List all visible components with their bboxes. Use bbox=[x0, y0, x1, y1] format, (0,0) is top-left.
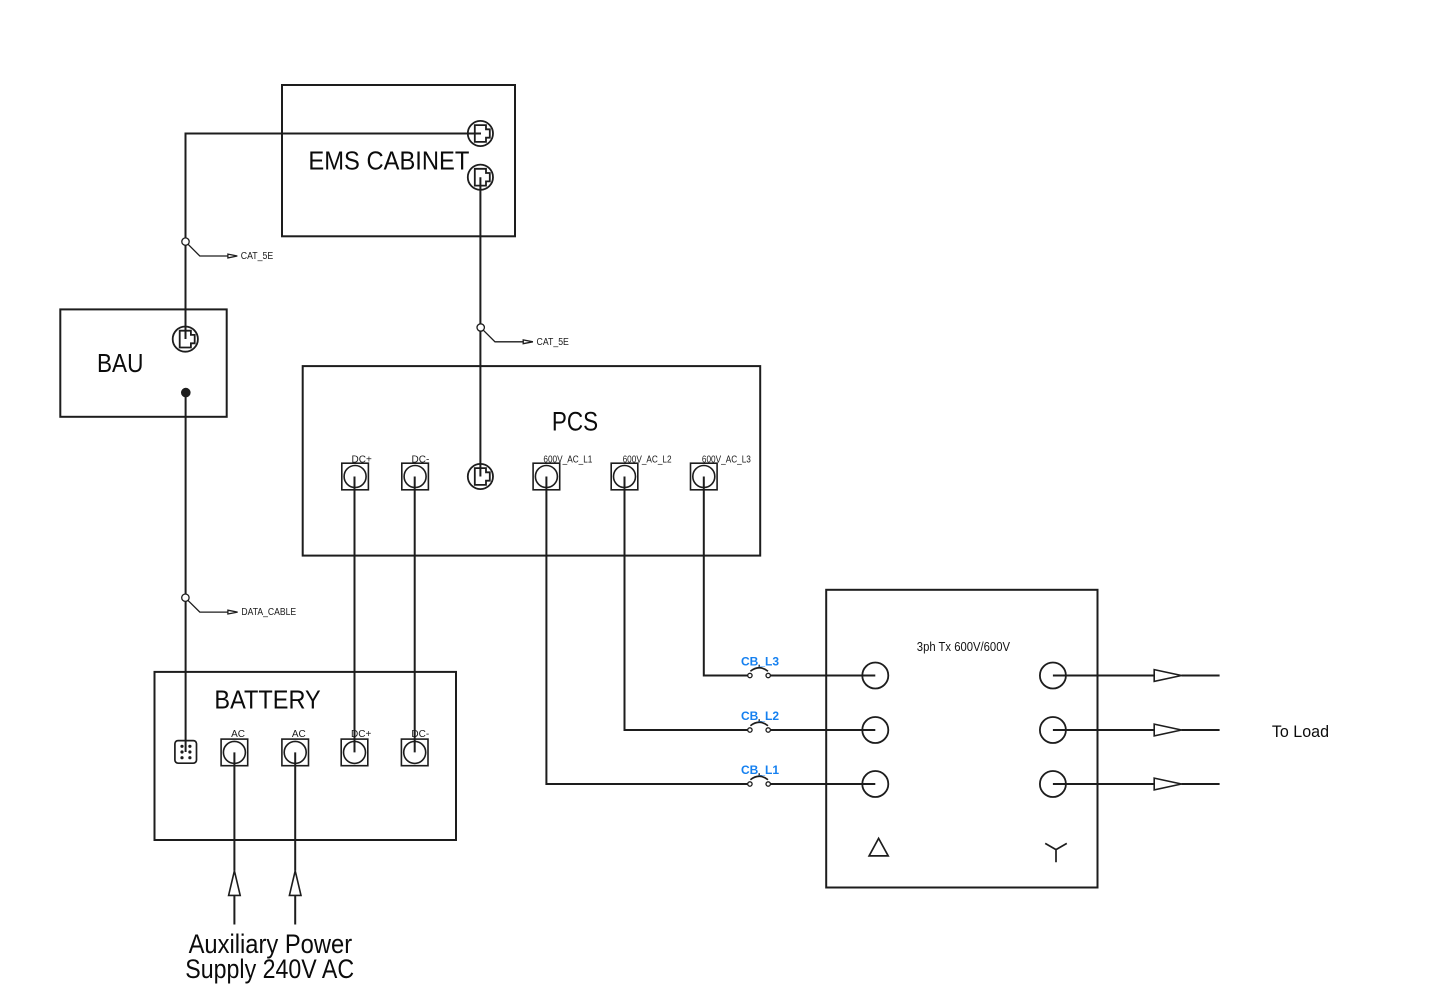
svg-text:CB_L1: CB_L1 bbox=[741, 763, 779, 777]
svg-text:PCS: PCS bbox=[552, 407, 598, 437]
svg-text:EMS CABINET: EMS CABINET bbox=[308, 145, 469, 175]
battery data connector (6-pin) bbox=[175, 741, 197, 764]
wire: PCS DC+ to battery DC+ bbox=[354, 477, 356, 753]
wire: CB_L2 to transformer H2 bbox=[770, 729, 875, 731]
svg-text:DC-: DC- bbox=[411, 729, 429, 740]
svg-text:DC+: DC+ bbox=[352, 455, 372, 466]
svg-text:AC: AC bbox=[292, 729, 306, 740]
transformer terminal X2 bbox=[1040, 717, 1066, 743]
wire: X3 to load L3 bbox=[1053, 670, 1220, 682]
svg-text:BAU: BAU bbox=[97, 348, 143, 378]
EMS cabinet box bbox=[282, 85, 515, 236]
junction dot in BAU bbox=[181, 388, 191, 398]
transformer terminal X1 bbox=[1040, 771, 1066, 797]
wire: EMS jack J2 to PCS jack J4 bbox=[479, 177, 481, 476]
delta winding symbol bbox=[869, 838, 888, 856]
breaker CB_L3 bbox=[748, 665, 771, 678]
connector J4: PCS RJ45 bbox=[468, 464, 493, 489]
wire: X2 to load L2 bbox=[1053, 724, 1220, 736]
wire: CB_L1 to transformer H1 bbox=[770, 783, 875, 785]
wire: PCS L1 to CB_L1 bbox=[546, 477, 747, 785]
wire: PCS L3 to CB_L3 bbox=[704, 477, 748, 676]
terminal AC aux 2 bbox=[282, 739, 309, 766]
transformer terminal H1 bbox=[862, 771, 888, 797]
terminal DC+ (battery) bbox=[341, 739, 368, 766]
node: CAT_5E tap on BAU cable bbox=[182, 238, 238, 258]
terminal DC- (battery) bbox=[401, 739, 428, 766]
label Auxiliary Power Supply 240V AC bbox=[185, 929, 354, 984]
terminal 600V_AC_L2 bbox=[611, 463, 638, 490]
connector J1: EMS RJ45 bbox=[468, 121, 493, 146]
wire: BAU to battery data connector bbox=[185, 393, 187, 752]
svg-text:3ph Tx 600V/600V: 3ph Tx 600V/600V bbox=[917, 639, 1010, 654]
BATTERY box bbox=[155, 672, 457, 840]
terminal 600V_AC_L1 bbox=[533, 463, 560, 490]
svg-text:DC-: DC- bbox=[412, 455, 430, 466]
connector J3: BAU RJ45 bbox=[173, 327, 198, 352]
transformer T1 box bbox=[826, 590, 1097, 888]
svg-text:CAT_5E: CAT_5E bbox=[241, 251, 274, 262]
connector J2: EMS RJ45 lower bbox=[468, 165, 493, 190]
svg-text:CB_L3: CB_L3 bbox=[741, 655, 779, 669]
terminal DC+ (PCS) bbox=[342, 463, 369, 490]
svg-text:To Load: To Load bbox=[1272, 722, 1329, 741]
terminal DC- (PCS) bbox=[402, 463, 429, 490]
wye winding symbol bbox=[1045, 843, 1067, 862]
BAU box bbox=[60, 309, 226, 416]
svg-text:Supply 240V AC: Supply 240V AC bbox=[185, 954, 354, 984]
svg-text:600V_AC_L1: 600V_AC_L1 bbox=[543, 455, 592, 466]
wire: PCS L2 to CB_L2 bbox=[625, 477, 748, 731]
wire: CB_L3 to transformer H3 bbox=[770, 675, 875, 677]
wire: aux power 1 into battery AC bbox=[229, 752, 241, 924]
wire: aux power 2 into battery AC bbox=[289, 752, 301, 924]
node: DATA_CABLE tap bbox=[182, 594, 238, 614]
svg-text:600V_AC_L2: 600V_AC_L2 bbox=[623, 455, 672, 466]
node: CAT_5E tap on PCS cable bbox=[477, 324, 533, 344]
svg-text:DATA_CABLE: DATA_CABLE bbox=[241, 607, 296, 618]
svg-text:AC: AC bbox=[231, 729, 245, 740]
wire: X1 to load L1 bbox=[1053, 778, 1220, 790]
svg-text:600V_AC_L3: 600V_AC_L3 bbox=[702, 455, 751, 466]
breaker CB_L1 bbox=[748, 773, 771, 786]
breaker CB_L2 bbox=[748, 719, 771, 732]
wire: PCS DC- to battery DC- bbox=[414, 477, 416, 753]
svg-text:CB_L2: CB_L2 bbox=[741, 709, 779, 723]
terminal 600V_AC_L3 bbox=[691, 463, 718, 490]
transformer terminal H3 bbox=[862, 663, 888, 689]
transformer terminal X3 bbox=[1040, 663, 1066, 689]
svg-text:CAT_5E: CAT_5E bbox=[537, 337, 570, 348]
terminal AC aux 1 bbox=[221, 739, 248, 766]
svg-text:DC+: DC+ bbox=[351, 729, 371, 740]
transformer terminal H2 bbox=[862, 717, 888, 743]
wire: EMS jack J1 to left riser bbox=[186, 134, 482, 340]
svg-text:BATTERY: BATTERY bbox=[214, 685, 320, 715]
PCS box bbox=[303, 366, 761, 555]
